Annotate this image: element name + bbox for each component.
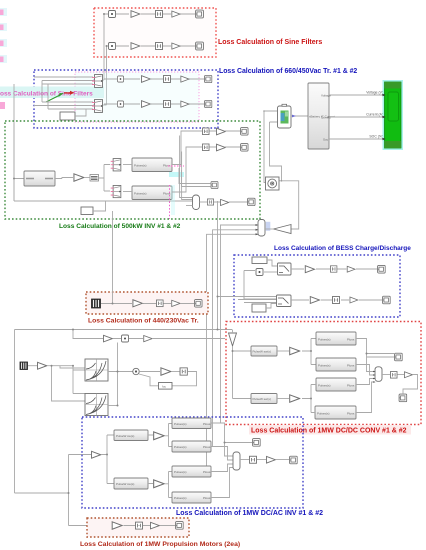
wire down tri feed — [233, 330, 252, 399]
gain dcdc out — [404, 372, 412, 378]
pink fragment left edge 3 — [0, 39, 7, 47]
integrator row1 — [156, 11, 163, 18]
wire mux to int — [382, 374, 390, 376]
wire convD out — [356, 382, 375, 413]
selection cyan band — [171, 185, 175, 215]
scope BESS row1 — [378, 265, 386, 273]
mux 500 row2 — [111, 185, 121, 197]
wire inv1 out up to meas row1 — [172, 131, 202, 165]
gain prop1 — [112, 522, 122, 529]
small gain 1 — [154, 432, 164, 440]
junction BESS — [217, 296, 219, 298]
wire curve1 out — [108, 371, 133, 373]
wire invC out — [211, 464, 233, 472]
svg-text:Pulses(s): Pulses(s) — [318, 364, 331, 368]
junction loop — [68, 492, 70, 494]
svg-text:Ploss: Ploss — [347, 364, 355, 368]
gain row1a — [131, 11, 140, 18]
switch icon row1 — [279, 266, 289, 273]
wire const1 to switch — [267, 260, 278, 266]
wire sum out — [200, 201, 208, 203]
svg-text:Ploss: Ploss — [347, 384, 355, 388]
wire soc — [329, 138, 384, 140]
curve block 2 — [85, 394, 108, 416]
svg-text:Loss Calculation of 1MW Propul: Loss Calculation of 1MW Propulsion Motor… — [80, 541, 240, 548]
gain dcac in — [92, 451, 101, 458]
svg-text:Pulses(s): Pulses(s) — [318, 384, 331, 388]
gain dcdc2 — [290, 395, 300, 402]
wire to goto — [179, 168, 211, 187]
wire top chain — [73, 338, 225, 340]
wire bottom chain — [214, 201, 247, 203]
scope dcac top — [253, 439, 261, 447]
wire const2 to switch2 — [266, 304, 278, 309]
wire demux out2 — [213, 230, 259, 446]
inv block C — [172, 466, 211, 477]
wire mux2 to inv2 — [123, 191, 132, 193]
gain BESS row2b — [350, 297, 358, 303]
svg-text:Loss Calculation of 440/230Vac: Loss Calculation of 440/230Vac Tr. — [88, 318, 199, 325]
junction convA — [366, 353, 368, 355]
meas block bottom — [207, 199, 213, 205]
label bg — [249, 425, 411, 435]
svg-text:Ploss: Ploss — [347, 412, 355, 416]
constant BESS row1 — [252, 257, 267, 264]
conv block C — [316, 378, 356, 391]
wire sub2 to gain2 — [277, 398, 289, 400]
svg-text:Pulses(s): Pulses(s) — [174, 422, 187, 426]
wire switch1 to gain — [291, 268, 377, 270]
down triangle gain — [229, 333, 237, 346]
annotation box: Loss Calculation of Sine Filters — [94, 8, 216, 57]
scope input arrows — [383, 94, 386, 140]
scope 660 row2 — [205, 100, 212, 107]
gain prop2 — [151, 522, 160, 529]
wire convC out — [356, 379, 375, 385]
meas scope row2 — [241, 144, 248, 151]
wire row1 chain — [116, 13, 195, 15]
gain prop — [38, 362, 47, 369]
product block row2 — [109, 43, 116, 50]
subsystem block 500kW — [24, 171, 55, 186]
svg-text:Pulses(s): Pulses(s) — [134, 164, 147, 168]
svg-text:Pulses(s): Pulses(s) — [174, 445, 187, 449]
integrator 660 row2 — [164, 101, 171, 108]
signal generator prop — [20, 362, 28, 370]
integrator 440 — [156, 300, 163, 307]
curve block 2 grid — [85, 394, 108, 416]
wire invA out — [211, 423, 252, 456]
demux pad — [266, 222, 271, 231]
inverter block 2 — [132, 186, 172, 200]
integrator fb — [180, 368, 187, 375]
pwm block 1 — [114, 430, 148, 441]
svg-text:Ploss: Ploss — [203, 445, 211, 449]
wire product to switch — [264, 271, 278, 273]
motor center dot — [272, 183, 273, 184]
wire int to gain dcac — [257, 459, 266, 461]
junction row2 input — [106, 45, 108, 47]
junction g1 — [310, 350, 312, 352]
junction loop2 — [217, 329, 219, 331]
gain 660 row2a — [142, 101, 151, 108]
scope 660 row1 — [205, 75, 212, 82]
annotation arrowhead red — [64, 91, 75, 95]
gain 440b — [172, 300, 180, 306]
inverter block 1 — [132, 158, 172, 172]
wire meas row2 — [210, 146, 241, 148]
scope dark bottom band — [385, 141, 402, 148]
meas gain row1 — [217, 128, 226, 135]
scope row2 — [196, 42, 204, 50]
wire: left input lines to mux1 — [34, 77, 93, 84]
svg-text:Pulses(s): Pulses(s) — [318, 338, 331, 342]
svg-text:Loss Calculation of 500kW INV: Loss Calculation of 500kW INV #1 & #2 — [59, 223, 181, 230]
annotation box: BESS — [234, 255, 400, 317]
wire constant bottom — [93, 201, 106, 211]
signal generator 440 — [92, 299, 101, 308]
mux 660 row2 — [92, 100, 103, 113]
foc block — [159, 383, 173, 390]
constant BESS row2 — [252, 304, 266, 312]
gain 660 row1b — [181, 76, 189, 82]
unit block 660 row1 — [117, 76, 123, 82]
svg-text:Ploss: Ploss — [203, 470, 211, 474]
small gain 2 — [154, 480, 164, 488]
inv block A — [172, 418, 211, 429]
annotation arrow green — [46, 95, 61, 103]
scope selection glow — [384, 81, 403, 149]
svg-text:Pulses(s): Pulses(s) — [174, 470, 187, 474]
scope dcac out — [290, 456, 298, 464]
wire pwm1 gain — [148, 424, 172, 447]
curve block 1 — [85, 359, 108, 381]
annotation box: Loss Calculation of 660/450Vac Tr. #1 & #2 — [34, 70, 218, 128]
wire prop chain — [124, 525, 176, 527]
scope prop — [176, 522, 184, 530]
wire fb loop — [139, 372, 197, 386]
svg-text:Voltage (V): Voltage (V) — [366, 91, 383, 95]
wire int to gain — [398, 374, 405, 376]
svg-text:foc: foc — [162, 385, 167, 389]
pink fragment left edge 4 — [0, 55, 7, 63]
selection box magenta — [75, 72, 199, 122]
scope BESS row2 — [383, 296, 391, 304]
gain row2b — [172, 43, 180, 49]
svg-text:Loss Calculation of 660/450Vac: Loss Calculation of 660/450Vac Tr. #1 & … — [219, 68, 357, 75]
svg-text:PulseW sw(s): PulseW sw(s) — [116, 434, 134, 438]
wire sub1 to gain — [277, 350, 289, 352]
wire sum in3 — [186, 205, 193, 207]
sum block — [193, 195, 200, 210]
gain top2 — [144, 335, 152, 341]
conv sub block 2 — [251, 394, 277, 404]
wire inv2 out up to meas row2 — [172, 147, 202, 192]
wire branch to sig row — [73, 330, 103, 339]
meas block row1 — [202, 128, 209, 135]
integrator prop — [136, 522, 143, 529]
product BESS row1 — [256, 269, 263, 276]
junction dcac — [106, 454, 108, 456]
gain BESS row2 — [310, 297, 319, 304]
big green scope block — [385, 82, 402, 148]
selection magenta dashed line — [169, 185, 171, 219]
wire current — [329, 116, 384, 118]
wire row2 chain 660 — [104, 103, 204, 105]
pink fragment left edge 2 — [0, 23, 7, 31]
svg-text:Loss Calculation of 1MW DC/DC: Loss Calculation of 1MW DC/DC CONV #1 & … — [251, 428, 407, 435]
conv sub block 1 — [251, 346, 277, 356]
integrator row2 — [156, 43, 163, 50]
inv block B — [172, 441, 211, 452]
curve block 2 curves — [86, 396, 106, 415]
gain top — [104, 335, 113, 342]
wire BESS row2 input — [238, 297, 278, 303]
wire: vertical feed row2 — [93, 46, 108, 105]
wire convB out — [356, 365, 375, 376]
wire demux to triangle — [265, 228, 274, 230]
wire: left input lines to mux2 — [34, 102, 93, 109]
wire mux1 to inv1 — [123, 164, 132, 166]
svg-text:Loss Calculation of BESS Charg: Loss Calculation of BESS Charge/Discharg… — [274, 245, 411, 252]
wire blue box to battery 1 — [264, 111, 278, 183]
conv block B — [316, 358, 356, 371]
gain 440 — [133, 300, 142, 307]
goto block — [211, 182, 218, 189]
gain dcdc1 — [290, 347, 300, 354]
mini scope dot — [135, 370, 137, 372]
constant block bottom — [81, 207, 93, 215]
mux dcdc — [375, 367, 382, 382]
gain row2a — [131, 43, 140, 50]
gain 660 row2b — [181, 101, 189, 107]
demux block — [258, 220, 265, 237]
wire gain to junctions — [48, 366, 86, 401]
selection cyan patch at inv1 — [169, 172, 184, 177]
wire 440 top feed — [112, 211, 114, 304]
junction g2 — [310, 398, 312, 400]
gain row1b — [172, 11, 180, 17]
svg-text:Loss Calculation of Sine Filte: Loss Calculation of Sine Filters — [218, 39, 322, 46]
switch icon row2 — [278, 298, 289, 304]
integrator BESS row1 — [330, 266, 336, 272]
svg-text:Current (A): Current (A) — [366, 113, 383, 117]
wire gain to scope dcac — [276, 459, 289, 461]
wire main loop — [15, 330, 233, 526]
wire: left loop vertical — [14, 123, 193, 201]
junction curve — [117, 371, 119, 373]
meas gain bottom — [221, 199, 229, 205]
junction p2 — [72, 365, 74, 367]
wire demux out1 — [221, 225, 259, 423]
svg-text:Ploss: Ploss — [203, 422, 211, 426]
wire voltage — [329, 94, 384, 96]
wire BESS row1 verticals — [238, 271, 278, 300]
annotation box: DC/AC INV — [82, 417, 303, 508]
svg-text:Loss Calculation of 1MW DC/AC: Loss Calculation of 1MW DC/AC INV #1 & #… — [176, 510, 323, 517]
switch BESS row1 — [278, 263, 292, 275]
gain BESS row1 — [305, 266, 314, 273]
svg-text:Pulses(s): Pulses(s) — [174, 496, 187, 500]
wire to gain — [55, 178, 73, 179]
junction dctri — [232, 350, 234, 352]
wire row2 chain — [116, 45, 195, 47]
scope row1 — [196, 10, 204, 18]
svg-text:PulseW sw(s): PulseW sw(s) — [253, 350, 271, 354]
gain BESS row1b — [347, 266, 355, 272]
svg-text:PulseW sw(s): PulseW sw(s) — [253, 397, 271, 401]
wire circle to gain — [139, 371, 160, 373]
svg-text:Ploss: Ploss — [203, 496, 211, 500]
junction left — [13, 178, 15, 180]
scope 440 — [195, 300, 202, 307]
junction invA — [224, 442, 226, 444]
wire invD out — [211, 468, 233, 498]
scope dark top band — [385, 82, 402, 89]
product top — [122, 335, 129, 342]
annotation box: Loss Calculation of 500kW INV #1 & #2 — [5, 121, 260, 219]
scope dcdc bottom — [399, 394, 407, 402]
wire curve2 out — [108, 405, 118, 407]
svg-text:Ploss: Ploss — [163, 164, 171, 168]
wire 440 chain — [101, 303, 194, 305]
unit block 660 row2 — [117, 101, 123, 107]
svg-text:PulseW sw(s): PulseW sw(s) — [116, 482, 134, 486]
gain dcac out — [267, 456, 276, 463]
gain flipped — [274, 225, 292, 234]
mini scope circle — [133, 368, 139, 374]
wire product down — [117, 343, 119, 406]
wire label to mux column — [99, 165, 111, 192]
battery icon — [281, 111, 289, 124]
mux 500 row1 — [111, 159, 121, 171]
junction branch — [72, 329, 74, 331]
junction 440 — [112, 303, 114, 305]
svg-text:Soc: Soc — [323, 138, 329, 142]
scope dcdc top — [395, 353, 403, 361]
wire convA out — [356, 339, 394, 372]
conv block A — [316, 332, 356, 345]
wire mux to int dcac — [240, 459, 249, 461]
junction row1 input — [103, 13, 105, 15]
motor inner circle — [271, 182, 274, 185]
battery out arrow — [292, 115, 296, 118]
svg-text:SOC (%): SOC (%) — [369, 135, 383, 139]
annotation box: 440/230Vac Tr — [86, 292, 208, 314]
annotation box: Propulsion Motors — [87, 518, 189, 537]
mux dcac — [233, 452, 240, 470]
junction p1 — [51, 365, 53, 367]
inv block D — [172, 492, 211, 503]
total label block — [90, 175, 99, 182]
battery icon shine — [285, 112, 288, 117]
gain fb — [161, 368, 171, 375]
pink fragment left edge 1 — [0, 8, 7, 16]
selected annotation text highlight — [0, 87, 104, 99]
svg-text:Pulses(s): Pulses(s) — [134, 192, 147, 196]
scope inner screen — [388, 92, 399, 121]
meas block row2 — [202, 144, 209, 151]
wire from constant — [75, 109, 86, 116]
conv block D — [315, 406, 356, 419]
curve block 1 curves — [86, 361, 106, 380]
integrator dcac — [250, 456, 257, 463]
annotation box: DC/DC CONV — [226, 322, 421, 425]
selection pink dashes at inv1 — [168, 165, 184, 167]
wire gain to label — [85, 177, 90, 179]
pink fragment left edge lower — [0, 102, 5, 109]
battery icon blue part — [281, 113, 285, 121]
gain 660 row1a — [142, 76, 151, 83]
wire: vertical feed row1 — [93, 14, 108, 80]
wire meas row1 — [210, 130, 241, 132]
wire blue box to battery 2 — [270, 122, 299, 229]
motor outer circle — [268, 179, 277, 188]
mux dcdc arrows — [373, 371, 376, 383]
port text — [26, 178, 53, 180]
wire gain out loop — [403, 375, 418, 394]
wire pwm2 gain — [148, 472, 172, 498]
wire siggen to gain — [28, 365, 37, 367]
battery block — [278, 106, 292, 128]
svg-text:Voltage: Voltage — [321, 94, 331, 98]
svg-text:Pulses(s): Pulses(s) — [317, 412, 330, 416]
product block row1 — [109, 11, 116, 18]
integrator BESS row2 — [333, 297, 340, 304]
meas gain row2 — [217, 144, 226, 151]
measurement subsystem block — [308, 83, 329, 149]
battery pin — [282, 104, 287, 106]
demux arrows — [256, 224, 259, 235]
wire gain2 split — [302, 385, 316, 413]
pwm block 2 — [114, 478, 148, 489]
curve block 1 grid — [85, 359, 108, 381]
constant block lower left — [60, 112, 75, 120]
wire battery to subsystem — [291, 115, 308, 117]
wire invB out — [211, 447, 233, 461]
label block text lines — [91, 177, 98, 180]
motor block — [266, 177, 280, 190]
wire demux out3 — [207, 234, 259, 471]
svg-text:Ploss: Ploss — [347, 338, 355, 342]
wire BESS input — [218, 201, 245, 330]
switch BESS row2 — [277, 295, 292, 307]
wire verticals into sum — [180, 136, 192, 200]
wire gain to int — [172, 371, 180, 373]
gain 500kW — [74, 174, 84, 181]
wire gain1 split — [302, 339, 316, 365]
wire row1 chain 660 — [104, 78, 204, 80]
svg-text:Current: Current — [321, 116, 331, 120]
integrator dcdc — [390, 372, 397, 379]
integrator 660 row1 — [164, 76, 171, 83]
wire gain split — [102, 435, 115, 484]
meas scope bottom — [248, 198, 255, 205]
mux 660 row1 — [92, 75, 103, 88]
wire switch2 chain — [291, 299, 382, 301]
wire: vertical left links — [14, 81, 48, 202]
meas scope row1 — [241, 128, 248, 135]
